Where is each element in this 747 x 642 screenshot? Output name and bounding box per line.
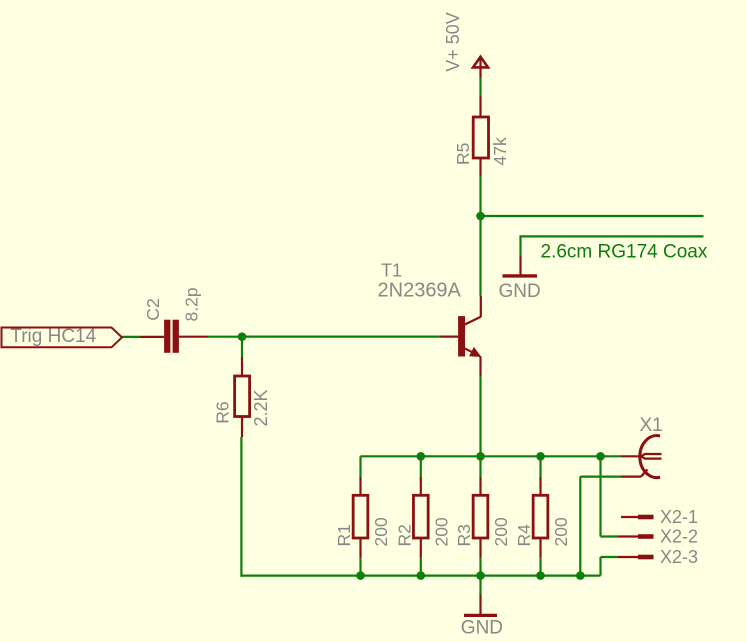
svg-text:2.6cm RG174 Coax: 2.6cm RG174 Coax [541,241,708,262]
svg-text:200: 200 [371,517,391,546]
svg-text:R6: R6 [212,401,232,423]
svg-text:C2: C2 [143,298,163,320]
svg-text:R1: R1 [334,524,354,546]
svg-text:200: 200 [551,517,571,546]
svg-text:X2-3: X2-3 [660,547,698,567]
svg-text:R5: R5 [453,143,473,165]
svg-text:200: 200 [431,517,451,546]
svg-text:GND: GND [499,281,541,302]
svg-text:2.2K: 2.2K [251,389,271,426]
svg-text:2N2369A: 2N2369A [378,280,462,302]
svg-text:R2: R2 [394,524,414,546]
svg-text:8.2p: 8.2p [181,287,201,321]
svg-text:47k: 47k [490,137,510,165]
svg-text:X2-1: X2-1 [660,507,698,527]
svg-text:X2-2: X2-2 [660,527,698,547]
svg-text:Trig HC14: Trig HC14 [10,326,96,347]
svg-text:R4: R4 [514,524,534,547]
svg-text:R3: R3 [454,524,474,546]
svg-text:200: 200 [491,517,511,546]
svg-text:T1: T1 [381,260,402,280]
svg-text:V+ 50V: V+ 50V [443,12,463,72]
svg-text:GND: GND [461,617,503,638]
svg-text:X1: X1 [640,415,663,436]
